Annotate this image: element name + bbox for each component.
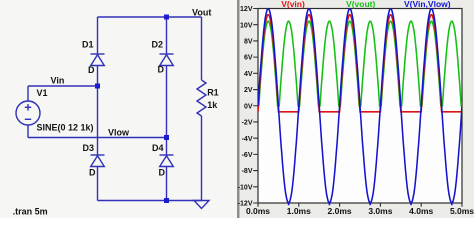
V1 minus sign bbox=[25, 118, 31, 120]
svg-text:R1: R1 bbox=[207, 88, 219, 98]
wire Vin horizontal bbox=[28, 85, 98, 87]
svg-text:8V: 8V bbox=[244, 39, 253, 46]
node junction bottom rail at D4 bbox=[164, 198, 169, 203]
svg-text:D: D bbox=[158, 65, 165, 75]
svg-text:4.0ms: 4.0ms bbox=[409, 206, 433, 216]
svg-text:-6V: -6V bbox=[242, 152, 253, 159]
diode D4 bbox=[160, 154, 174, 156]
svg-text:SINE(0 12 1k): SINE(0 12 1k) bbox=[37, 123, 94, 133]
wire column A from D1 to Vin node bbox=[97, 66, 99, 87]
svg-text:D: D bbox=[159, 168, 166, 178]
svg-text:10V: 10V bbox=[240, 22, 253, 29]
svg-text:Vlow: Vlow bbox=[108, 128, 130, 138]
svg-text:D: D bbox=[89, 168, 96, 178]
blue trace minima nubs crossing bottom border bbox=[289, 203, 452, 206]
svg-text:V(Vin,Vlow): V(Vin,Vlow) bbox=[404, 0, 451, 9]
svg-text:2.0ms: 2.0ms bbox=[328, 206, 352, 216]
wire R1 top lead bbox=[201, 17, 203, 80]
wire column B from D4 to bottom rail bbox=[166, 167, 168, 201]
wire column A upper (Vout to D1) bbox=[97, 17, 99, 54]
svg-text:Vin: Vin bbox=[51, 76, 65, 86]
wire V1 minus lead bbox=[27, 125, 29, 138]
trace V(Vin,Vlow) blue bbox=[258, 9, 462, 203]
resistor R1 bbox=[197, 80, 206, 116]
wire column A from D3 to bottom rail bbox=[97, 167, 99, 201]
trace V(vout) green bbox=[258, 21, 462, 106]
svg-text:4V: 4V bbox=[244, 71, 253, 78]
diode D2 bbox=[160, 53, 174, 55]
wire column B upper (Vout to D2) bbox=[166, 17, 168, 54]
panel divider bbox=[237, 0, 240, 218]
svg-text:0.0ms: 0.0ms bbox=[246, 206, 270, 216]
svg-text:3.0ms: 3.0ms bbox=[368, 206, 392, 216]
svg-text:12V: 12V bbox=[240, 6, 253, 13]
wire column A from Vin node down to D3 bbox=[97, 86, 99, 155]
diode D1 bbox=[91, 53, 105, 55]
svg-text:D1: D1 bbox=[82, 40, 94, 50]
plot area bbox=[258, 9, 462, 204]
wire V1 plus lead bbox=[27, 86, 29, 101]
diode D3 bbox=[91, 154, 105, 156]
svg-text:V1: V1 bbox=[37, 88, 48, 98]
svg-text:1.0ms: 1.0ms bbox=[287, 206, 311, 216]
svg-text:5.0ms: 5.0ms bbox=[450, 206, 474, 216]
svg-text:-8V: -8V bbox=[242, 168, 253, 175]
svg-text:D4: D4 bbox=[152, 143, 164, 153]
voltage source V1 bbox=[16, 101, 40, 125]
wire column B from Vlow node to D4 bbox=[166, 138, 168, 156]
node junction Vout at D2 bbox=[164, 15, 169, 20]
svg-text:D: D bbox=[88, 65, 95, 75]
svg-text:Vout: Vout bbox=[192, 8, 211, 18]
svg-text:V(vin): V(vin) bbox=[281, 0, 305, 9]
y axis ticks bbox=[253, 9, 258, 204]
svg-text:0V: 0V bbox=[244, 103, 253, 110]
svg-text:V(vout): V(vout) bbox=[346, 0, 375, 9]
wire top rail Vout bbox=[98, 16, 202, 18]
svg-text:-4V: -4V bbox=[242, 136, 253, 143]
x axis ticks bbox=[258, 203, 462, 207]
svg-text:2V: 2V bbox=[244, 87, 253, 94]
svg-text:-2V: -2V bbox=[242, 120, 253, 127]
trace V(vin) red bbox=[258, 15, 462, 112]
svg-text:-10V: -10V bbox=[238, 184, 253, 191]
svg-text:D3: D3 bbox=[83, 143, 95, 153]
wire Vlow horizontal bbox=[28, 137, 167, 139]
wire bottom rail bbox=[98, 200, 202, 202]
svg-text:1k: 1k bbox=[207, 100, 218, 110]
ground symbol bbox=[194, 201, 209, 209]
wire R1 bottom lead bbox=[201, 116, 203, 201]
svg-text:6V: 6V bbox=[244, 55, 253, 62]
waveform panel background bbox=[240, 0, 474, 218]
wire column B from D2 to Vlow node bbox=[166, 66, 168, 138]
svg-text:D2: D2 bbox=[152, 40, 164, 50]
node junction Vlow bbox=[164, 135, 169, 140]
svg-text:.tran 5m: .tran 5m bbox=[13, 207, 48, 217]
V1 plus sign bbox=[25, 104, 31, 110]
node junction Vin bbox=[95, 84, 100, 89]
